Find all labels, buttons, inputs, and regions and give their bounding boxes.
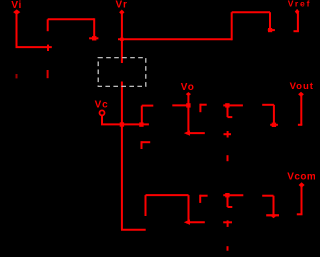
pin dash mid right column <box>227 155 229 161</box>
svg-text:Vi: Vi <box>11 0 22 11</box>
node Vout terminal dot <box>298 92 304 97</box>
L corner upper (M5 gate) <box>200 104 206 106</box>
junction bump row1 x Vr <box>120 38 123 41</box>
node Vcom terminal dot <box>299 182 305 187</box>
junction dot Vc x Vr <box>120 122 124 126</box>
arrow left at Vo bottom <box>184 130 190 135</box>
wire row2 far right vertical <box>273 105 275 125</box>
cross pin lower <box>223 221 232 223</box>
wire rowB drop vertical <box>227 195 229 207</box>
arrow tip below T bar <box>271 216 276 218</box>
wire rowB far right vertical <box>273 196 275 216</box>
wire Vcom vertical <box>301 185 303 214</box>
wire Vc vertical <box>101 116 103 125</box>
wire Vcom bottom stub left <box>297 213 303 215</box>
cross pin upper <box>224 133 232 135</box>
node Vi terminal dot <box>13 9 20 14</box>
arrow left at rowB bottom <box>184 220 190 225</box>
wire mirror gate horizontal <box>142 105 154 107</box>
wire Vc horizontal <box>101 123 149 125</box>
wire rowB pi right leg <box>188 195 190 221</box>
L corner lower (M9 gate) <box>200 195 207 197</box>
wire rowB drop stub right <box>228 206 233 208</box>
junction dot Vc x mirror <box>139 122 143 126</box>
wire Vref bottom stub left <box>294 30 299 32</box>
T bar ground-like ending <box>266 214 279 216</box>
svg-text:Vc: Vc <box>95 100 109 111</box>
pin stub M1 gate <box>47 45 49 51</box>
wire row2 drop vertical <box>227 105 229 117</box>
wire hook1 left vertical <box>47 19 49 31</box>
wire Vi vertical <box>16 12 18 47</box>
wire hook2 left vertical <box>231 12 233 40</box>
node Vo terminal dot <box>186 92 191 96</box>
wire hook1 top horizontal <box>48 18 94 20</box>
junction dot Vo x row2 <box>186 103 190 107</box>
wire Vr vertical upper segment <box>121 12 123 64</box>
wire Vref vertical <box>297 12 299 32</box>
node Vc open circle <box>100 110 105 115</box>
wire row2 segment right of dot <box>227 104 243 106</box>
node Vref terminal dot <box>295 9 300 14</box>
junction dot row2 right <box>225 103 229 107</box>
wire Vr bottom horizontal <box>121 229 146 231</box>
wire row1 horizontal bias line <box>118 38 232 40</box>
wire hook2 top horizontal <box>232 11 270 13</box>
wire rowB far right segment <box>262 195 273 197</box>
wire row2 drop stub right <box>228 116 233 118</box>
wire row2 stub left of dot <box>223 104 227 106</box>
gamma corner mid left <box>142 141 151 143</box>
wire far right stub <box>270 124 278 126</box>
svg-text:Vr: Vr <box>116 0 129 11</box>
junction dot hook2 <box>268 28 272 32</box>
wire rowB segment right of dot <box>227 194 243 196</box>
junction dot far right <box>272 123 276 127</box>
svg-text:Vcom: Vcom <box>287 172 315 183</box>
pin dash M1 source <box>47 70 49 78</box>
wire Vo bottom horizontal <box>186 132 205 134</box>
wire hook1 right vertical <box>93 18 95 38</box>
wire Vr vertical lower segment <box>121 82 123 230</box>
node Vr terminal dot <box>119 10 124 15</box>
wire row2 segment into Vo <box>172 104 188 106</box>
wire Vout vertical <box>300 94 302 125</box>
wire Vout bottom stub left <box>298 124 302 126</box>
wire rowB pi left leg <box>145 195 147 216</box>
wire rowB pi top <box>146 194 189 196</box>
junction dot rowB <box>225 193 229 197</box>
wire hook1 bottom stub <box>89 37 98 39</box>
pin dash M2 source (dim) <box>16 74 18 78</box>
wire Vi horizontal to M1 gate <box>16 46 52 48</box>
wire row2 far right segment <box>262 104 274 106</box>
dashed box OTA core <box>98 58 146 87</box>
wire rowB bottom horizontal <box>186 221 205 223</box>
svg-text:Vref: Vref <box>288 0 311 8</box>
pin dash bottom right column <box>227 246 229 251</box>
svg-text:Vout: Vout <box>290 81 314 92</box>
wire mirror gate vertical <box>141 106 143 125</box>
wire Vo vertical <box>187 94 189 133</box>
wire hook2 right vertical <box>269 12 271 30</box>
svg-text:Vo: Vo <box>181 82 195 93</box>
wire hook2 bottom stub <box>268 29 275 31</box>
wire rowB stub left of dot <box>223 194 227 196</box>
junction dot hook1 <box>92 36 96 40</box>
